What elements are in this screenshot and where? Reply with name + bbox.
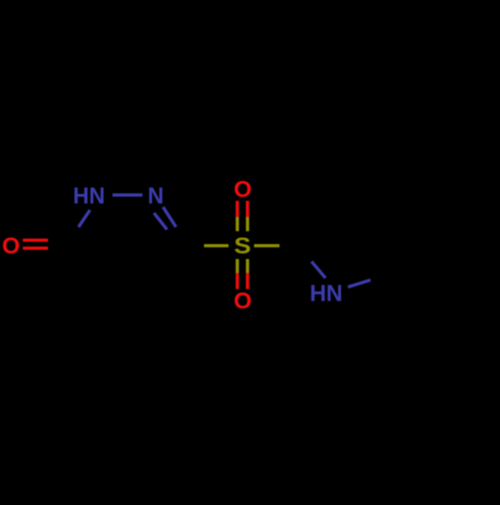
bond S=O top line2 red part (246, 201, 249, 217)
bond N1-C6 half (79, 210, 91, 227)
bond C8-N3 half (312, 262, 326, 279)
bond C3-S half (olive) (204, 244, 229, 247)
bond N3-C9 half (348, 280, 371, 287)
bond S=O top line1 red part (236, 201, 239, 217)
bond S=O top line1 olive part (236, 217, 239, 231)
svg-text:HN: HN (310, 280, 343, 306)
bond S=O bottom line1 olive part (236, 259, 239, 273)
bond S=O bottom line2 olive part (246, 259, 249, 273)
bond N2=C3 inner line (154, 213, 167, 230)
bond S=O top line2 olive part (246, 217, 249, 231)
bond S-C8 half (olive) (254, 244, 280, 247)
svg-text:S: S (234, 233, 251, 259)
bond C6=O7 upper line (23, 239, 48, 242)
svg-text:O: O (234, 288, 252, 314)
bond C6=O7 lower line (23, 247, 48, 250)
bond S=O bottom line2 red part (246, 273, 249, 289)
bond N2=C3 outer line (163, 207, 176, 227)
svg-text:O: O (234, 176, 252, 202)
bond S=O bottom line1 red part (236, 273, 239, 289)
svg-text:O: O (2, 233, 20, 259)
svg-text:HN: HN (73, 183, 105, 209)
bond N1-N2 (113, 193, 143, 196)
svg-text:N: N (148, 183, 164, 209)
